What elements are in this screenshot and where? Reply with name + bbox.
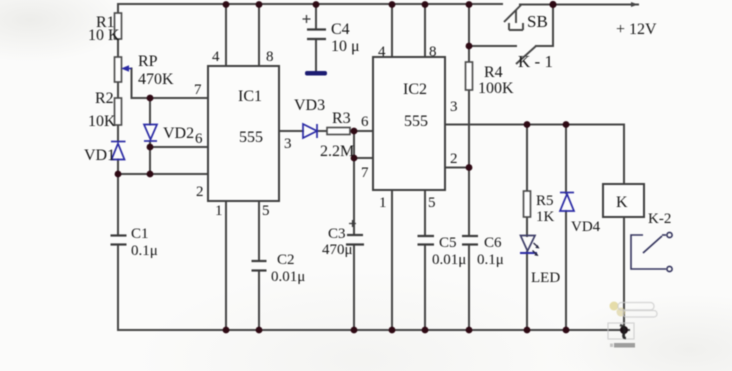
- svg-text:VD1: VD1: [84, 147, 115, 164]
- op-amp U2 / IC2 555 box: [373, 57, 445, 190]
- svg-text:1: 1: [215, 203, 223, 219]
- diode VD2: [144, 125, 157, 142]
- wire pin2 IC1: [118, 173, 208, 175]
- svg-text:0.01μ: 0.01μ: [271, 269, 305, 285]
- svg-text:K: K: [616, 194, 628, 211]
- node pin3 wire VD4: [563, 121, 570, 128]
- node top rail pin8 IC1: [256, 1, 263, 8]
- svg-text:5: 5: [262, 203, 270, 219]
- svg-text:K - 1: K - 1: [518, 52, 553, 71]
- wire R5 LED column: [526, 125, 528, 331]
- switch SB: [504, 5, 523, 30]
- svg-text:R2: R2: [95, 90, 114, 107]
- LED arrows: [533, 243, 540, 256]
- switch K-1 blade: [516, 46, 536, 64]
- node bottom rail C5: [422, 327, 429, 334]
- capacitor C5: [418, 236, 435, 245]
- svg-text:8: 8: [429, 44, 437, 60]
- wire pin8 IC2: [424, 4, 426, 57]
- svg-text:6: 6: [195, 131, 203, 147]
- wire pin5 IC2 to C5: [424, 190, 426, 330]
- wire K-1 branch: [469, 4, 553, 46]
- svg-text:RP: RP: [138, 53, 158, 70]
- svg-text:C3: C3: [328, 226, 346, 242]
- svg-text:8: 8: [266, 49, 274, 65]
- svg-text:100K: 100K: [478, 80, 514, 97]
- capacitor C2: [252, 261, 267, 271]
- capacitor C1: [111, 236, 127, 245]
- op-amp U1 / IC1 555 box: [208, 66, 279, 201]
- svg-text:1: 1: [379, 195, 387, 211]
- wire R3 to node: [350, 130, 373, 132]
- svg-text:2: 2: [450, 151, 458, 167]
- node bottom rail K: [620, 326, 628, 334]
- resistor R1: [115, 13, 122, 39]
- svg-text:C1: C1: [131, 226, 149, 242]
- svg-text:4: 4: [378, 44, 386, 60]
- node bottom rail pin1 IC2: [389, 327, 396, 334]
- wire C3 column: [353, 158, 355, 330]
- arrow +12V supply: [631, 2, 638, 7]
- wire pin5 IC1 to C2: [258, 201, 260, 330]
- wire pin2 IC2: [445, 167, 469, 169]
- potentiometer RP body: [115, 57, 122, 82]
- diode VD4: [560, 193, 574, 212]
- resistor R5: [524, 191, 531, 217]
- potentiometer RP arrow: [121, 65, 132, 71]
- svg-text:5: 5: [428, 195, 436, 211]
- wire left column R1 to RP: [117, 4, 119, 174]
- svg-text:C6: C6: [484, 235, 502, 251]
- svg-text:6: 6: [361, 114, 369, 130]
- wire pin4 IC1: [225, 4, 227, 66]
- svg-text:VD4: VD4: [571, 219, 601, 235]
- svg-text:3: 3: [450, 99, 458, 115]
- svg-text:10 μ: 10 μ: [331, 38, 360, 55]
- node VD2 bottom: [147, 171, 154, 178]
- wire C4 drop: [315, 4, 317, 71]
- watermark logo shapes: [608, 302, 657, 348]
- svg-text:+ 12V: + 12V: [616, 21, 657, 38]
- capacitor C6: [462, 236, 478, 245]
- node pin3 wire R5: [524, 121, 531, 128]
- wire C6 column: [468, 168, 470, 331]
- svg-text:470K: 470K: [138, 71, 174, 88]
- wire top rail right segment: [520, 4, 638, 6]
- svg-text:2.2M: 2.2M: [320, 143, 354, 160]
- svg-text:1K: 1K: [536, 209, 555, 225]
- wire bottom rail: [118, 329, 629, 331]
- svg-text:R3: R3: [332, 110, 351, 127]
- wire pin1 IC2: [391, 190, 393, 330]
- node bottom rail pin1 IC1: [223, 327, 230, 334]
- node VD2 pin6 junction: [147, 144, 154, 151]
- svg-text:2: 2: [196, 184, 204, 200]
- svg-text:555: 555: [239, 129, 263, 146]
- node top rail pin4 IC2: [389, 1, 396, 8]
- svg-text:VD2: VD2: [163, 125, 194, 142]
- wire top rail left segment: [118, 3, 502, 5]
- node VD1 bottom: [115, 171, 122, 178]
- node pin2 IC2: [466, 164, 473, 171]
- wire pin4 IC2: [391, 4, 393, 57]
- svg-text:IC1: IC1: [238, 88, 262, 105]
- svg-text:4: 4: [212, 49, 220, 65]
- svg-text:555: 555: [404, 113, 428, 130]
- capacitor C3 plus mark: [349, 220, 356, 227]
- LED diode: [520, 236, 537, 254]
- wire VD2 column: [149, 98, 151, 174]
- svg-text:IC2: IC2: [403, 81, 427, 98]
- svg-text:10 K: 10 K: [88, 27, 120, 44]
- resistor R3: [327, 128, 350, 135]
- node K-1 left: [466, 43, 473, 50]
- capacitor C4 polarized: [307, 30, 326, 40]
- resistor R2: [115, 98, 122, 125]
- node R3 out pin6: [351, 128, 358, 135]
- node bottom rail C2: [256, 327, 263, 334]
- node bottom rail LED: [524, 327, 531, 334]
- svg-text:0.1μ: 0.1μ: [131, 243, 158, 259]
- svg-text:C5: C5: [439, 235, 457, 251]
- node bottom rail C3: [351, 327, 358, 334]
- svg-text:10K: 10K: [88, 113, 116, 130]
- capacitor C3: [346, 235, 364, 245]
- wire pin3 IC1 to VD3: [279, 130, 327, 132]
- svg-text:0.01μ: 0.01μ: [432, 252, 466, 268]
- svg-text:R5: R5: [536, 193, 554, 209]
- svg-text:LED: LED: [531, 270, 560, 286]
- diode VD1: [111, 142, 126, 160]
- wire pin7 IC2: [354, 157, 373, 159]
- wire K coil column: [623, 217, 625, 338]
- node bottom rail VD4: [563, 327, 570, 334]
- svg-text:SB: SB: [527, 12, 548, 31]
- wire pin3 IC2 long: [445, 125, 624, 185]
- svg-text:3: 3: [284, 136, 292, 152]
- node link pin7: [351, 155, 358, 162]
- node top rail R4: [466, 1, 473, 8]
- svg-text:C4: C4: [331, 21, 350, 38]
- node top rail pin8 IC2: [422, 1, 429, 8]
- wire VD4 column: [565, 125, 567, 331]
- svg-text:7: 7: [361, 165, 369, 181]
- node top rail pin4 IC1: [223, 1, 230, 8]
- wire RP wiper to pin7: [132, 69, 209, 99]
- svg-text:0.1μ: 0.1μ: [477, 252, 504, 268]
- relay coil K box: [603, 184, 644, 217]
- node bottom rail C6: [466, 327, 473, 334]
- svg-text:VD3: VD3: [294, 97, 325, 114]
- wire C1 column: [117, 174, 119, 330]
- wire pin8 IC1: [258, 4, 260, 66]
- node top rail C4: [313, 1, 320, 8]
- wire pin1 IC1: [225, 201, 227, 330]
- svg-text:C2: C2: [277, 252, 295, 268]
- wire R4 column top: [468, 4, 470, 168]
- wire pin6 IC1: [150, 146, 208, 148]
- diode VD3: [303, 124, 317, 138]
- capacitor C4 plus mark: [303, 15, 311, 23]
- capacitor C4 ground bar: [305, 71, 327, 76]
- node RP wiper junction: [147, 95, 154, 102]
- svg-text:7: 7: [194, 82, 202, 98]
- relay contact K-2: [631, 232, 672, 271]
- wire node link 6-7: [353, 131, 355, 158]
- node top rail SB right: [549, 1, 556, 8]
- svg-text:K-2: K-2: [648, 211, 671, 227]
- svg-text:R4: R4: [484, 64, 503, 81]
- svg-text:470μ: 470μ: [322, 242, 353, 258]
- resistor R4: [466, 62, 473, 90]
